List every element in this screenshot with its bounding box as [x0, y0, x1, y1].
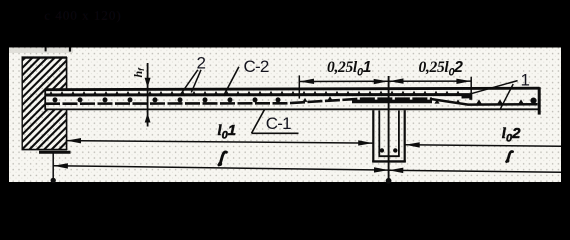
dimension line l01	[66, 141, 372, 144]
beam stirrup bottom	[379, 155, 400, 157]
extension tick above wall (right)	[69, 48, 71, 52]
arrow at beam right face	[405, 142, 420, 147]
extension line at C-2 end	[470, 77, 472, 95]
mesh C-2 end hook	[462, 94, 473, 99]
scan smudge stripe under header	[9, 48, 73, 53]
leader from 2 (left)	[181, 70, 198, 95]
extension tick above wall (left)	[45, 48, 47, 52]
dimension line 0,25l01 + 0,25l02	[299, 80, 471, 82]
leader from 2 (right)	[191, 70, 201, 93]
blob at bottom of wall-axis extension line	[51, 178, 56, 183]
mesh C-2 top line	[45, 93, 469, 96]
mesh C-2 cross-bar dots	[48, 91, 53, 96]
leader from 1 to right C-1	[500, 84, 513, 109]
wall bottom edge	[22, 149, 68, 151]
mesh C-1 dots on ramp	[303, 98, 308, 102]
beam inner line right (stirrup)	[398, 111, 400, 157]
slab right end	[538, 87, 541, 114]
h_f arrow up to slab soffit	[145, 113, 151, 123]
dimension line l02	[405, 145, 561, 146]
svg-text:C-1: C-1	[266, 114, 291, 133]
leader to mesh C-2	[224, 67, 239, 96]
wall right edge upper	[66, 57, 68, 90]
beam left face	[372, 110, 374, 162]
wall base line	[39, 151, 71, 154]
beam right face	[404, 110, 406, 162]
underline of C-1	[252, 132, 299, 134]
svg-text:с 400 х 120): с 400 х 120)	[45, 8, 122, 23]
mesh C-1 bottom line (left span)	[45, 99, 432, 104]
dimension line l (right span)	[389, 170, 561, 172]
beam rebar dot left	[380, 148, 384, 152]
mesh C-1 cross-bar dots (right span)	[434, 99, 439, 103]
svg-text:C-2: C-2	[244, 57, 269, 76]
wall right edge lower	[66, 110, 68, 151]
support bar over beam	[352, 100, 432, 104]
arrow at beam axis (right)	[389, 168, 404, 173]
extension line at wall axis	[52, 153, 54, 182]
slab top surface	[45, 88, 540, 90]
arrow right end 0,25l02	[456, 79, 471, 84]
arrow at beam left face	[358, 140, 373, 145]
h_f arrow down to slab top	[145, 78, 151, 88]
wall (hatched masonry support)	[0, 57, 226, 152]
arrow left end 0,25l01	[300, 79, 315, 84]
arrow at wall axis	[53, 163, 68, 168]
arrow at centreline (right)	[389, 78, 404, 83]
mesh C-1 descending into right span	[430, 99, 538, 105]
label l (right span)	[507, 151, 513, 161]
beam inner line left (stirrup)	[378, 111, 380, 157]
extension line at 0.25l01 start	[298, 75, 300, 98]
slab left end	[44, 89, 46, 110]
arrow at centreline (left)	[374, 79, 389, 84]
mesh C-1 right end blob	[530, 98, 536, 104]
svg-text:0,25l02: 0,25l02	[419, 59, 464, 78]
svg-text:l02: l02	[502, 125, 521, 145]
beam rebar dot right	[393, 148, 397, 152]
slab bottom surface	[45, 108, 540, 110]
leader from C-1 to mesh	[252, 110, 265, 134]
scanned page (white area with halftone dots)	[9, 48, 561, 183]
svg-text:2: 2	[197, 53, 206, 72]
svg-text:0,25l01: 0,25l01	[327, 59, 371, 78]
arrow at wall face	[67, 138, 82, 143]
arrow at beam axis (left)	[374, 167, 389, 172]
svg-text:l01: l01	[218, 122, 237, 142]
h_f dimension line	[147, 63, 149, 127]
beam centreline / axis	[388, 76, 390, 183]
dimension line l (left span)	[53, 166, 388, 170]
svg-text:1: 1	[521, 70, 530, 89]
label l (left span)	[219, 152, 227, 165]
centreline bottom blob	[386, 178, 392, 184]
wall left edge	[21, 57, 23, 150]
beam bottom edge	[372, 160, 406, 162]
leader from 1 to C-2 end	[468, 81, 518, 95]
wall top edge	[22, 56, 68, 58]
mesh C-1 cross-bar dots (left span)	[53, 97, 58, 102]
